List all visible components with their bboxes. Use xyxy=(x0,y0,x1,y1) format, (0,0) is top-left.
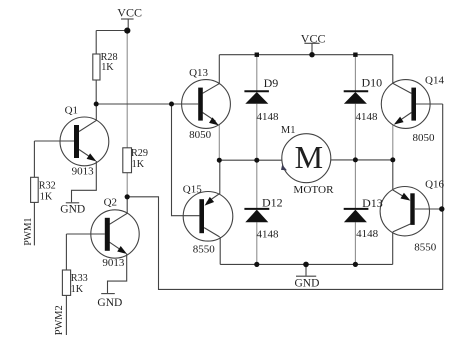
svg-text:8550: 8550 xyxy=(414,242,437,254)
svg-text:8050: 8050 xyxy=(413,132,436,144)
svg-text:8050: 8050 xyxy=(189,129,212,141)
svg-text:8550: 8550 xyxy=(193,243,216,255)
svg-text:D9: D9 xyxy=(264,76,279,90)
svg-text:D12: D12 xyxy=(262,195,283,209)
svg-text:PWM2: PWM2 xyxy=(54,305,65,335)
svg-text:Q2: Q2 xyxy=(104,196,117,208)
svg-text:1K: 1K xyxy=(40,191,53,202)
svg-text:1K: 1K xyxy=(101,62,114,73)
svg-text:PWM1: PWM1 xyxy=(23,218,34,246)
svg-text:D13: D13 xyxy=(362,196,383,210)
svg-text:Q16: Q16 xyxy=(425,179,444,191)
svg-text:4148: 4148 xyxy=(257,111,280,123)
svg-text:GND: GND xyxy=(295,277,320,289)
svg-text:Q13: Q13 xyxy=(189,67,208,79)
svg-text:R33: R33 xyxy=(71,273,88,284)
svg-text:R29: R29 xyxy=(131,148,148,159)
svg-text:Q15: Q15 xyxy=(183,184,202,196)
svg-text:M1: M1 xyxy=(281,125,296,136)
svg-text:VCC: VCC xyxy=(117,6,142,20)
svg-text:9013: 9013 xyxy=(72,166,95,178)
svg-text:GND: GND xyxy=(60,204,85,216)
svg-text:4148: 4148 xyxy=(356,228,379,240)
svg-text:R32: R32 xyxy=(39,180,56,191)
svg-text:1K: 1K xyxy=(71,284,84,295)
svg-text:9013: 9013 xyxy=(102,257,125,269)
svg-text:Q14: Q14 xyxy=(425,75,444,87)
svg-text:GND: GND xyxy=(97,297,122,309)
svg-text:4148: 4148 xyxy=(356,111,379,123)
svg-text:1K: 1K xyxy=(132,159,145,170)
svg-text:M: M xyxy=(295,139,323,175)
svg-text:4148: 4148 xyxy=(257,229,280,241)
svg-text:VCC: VCC xyxy=(301,31,326,45)
svg-text:MOTOR: MOTOR xyxy=(293,184,334,196)
svg-text:Q1: Q1 xyxy=(65,104,78,116)
svg-text:D10: D10 xyxy=(362,75,383,89)
